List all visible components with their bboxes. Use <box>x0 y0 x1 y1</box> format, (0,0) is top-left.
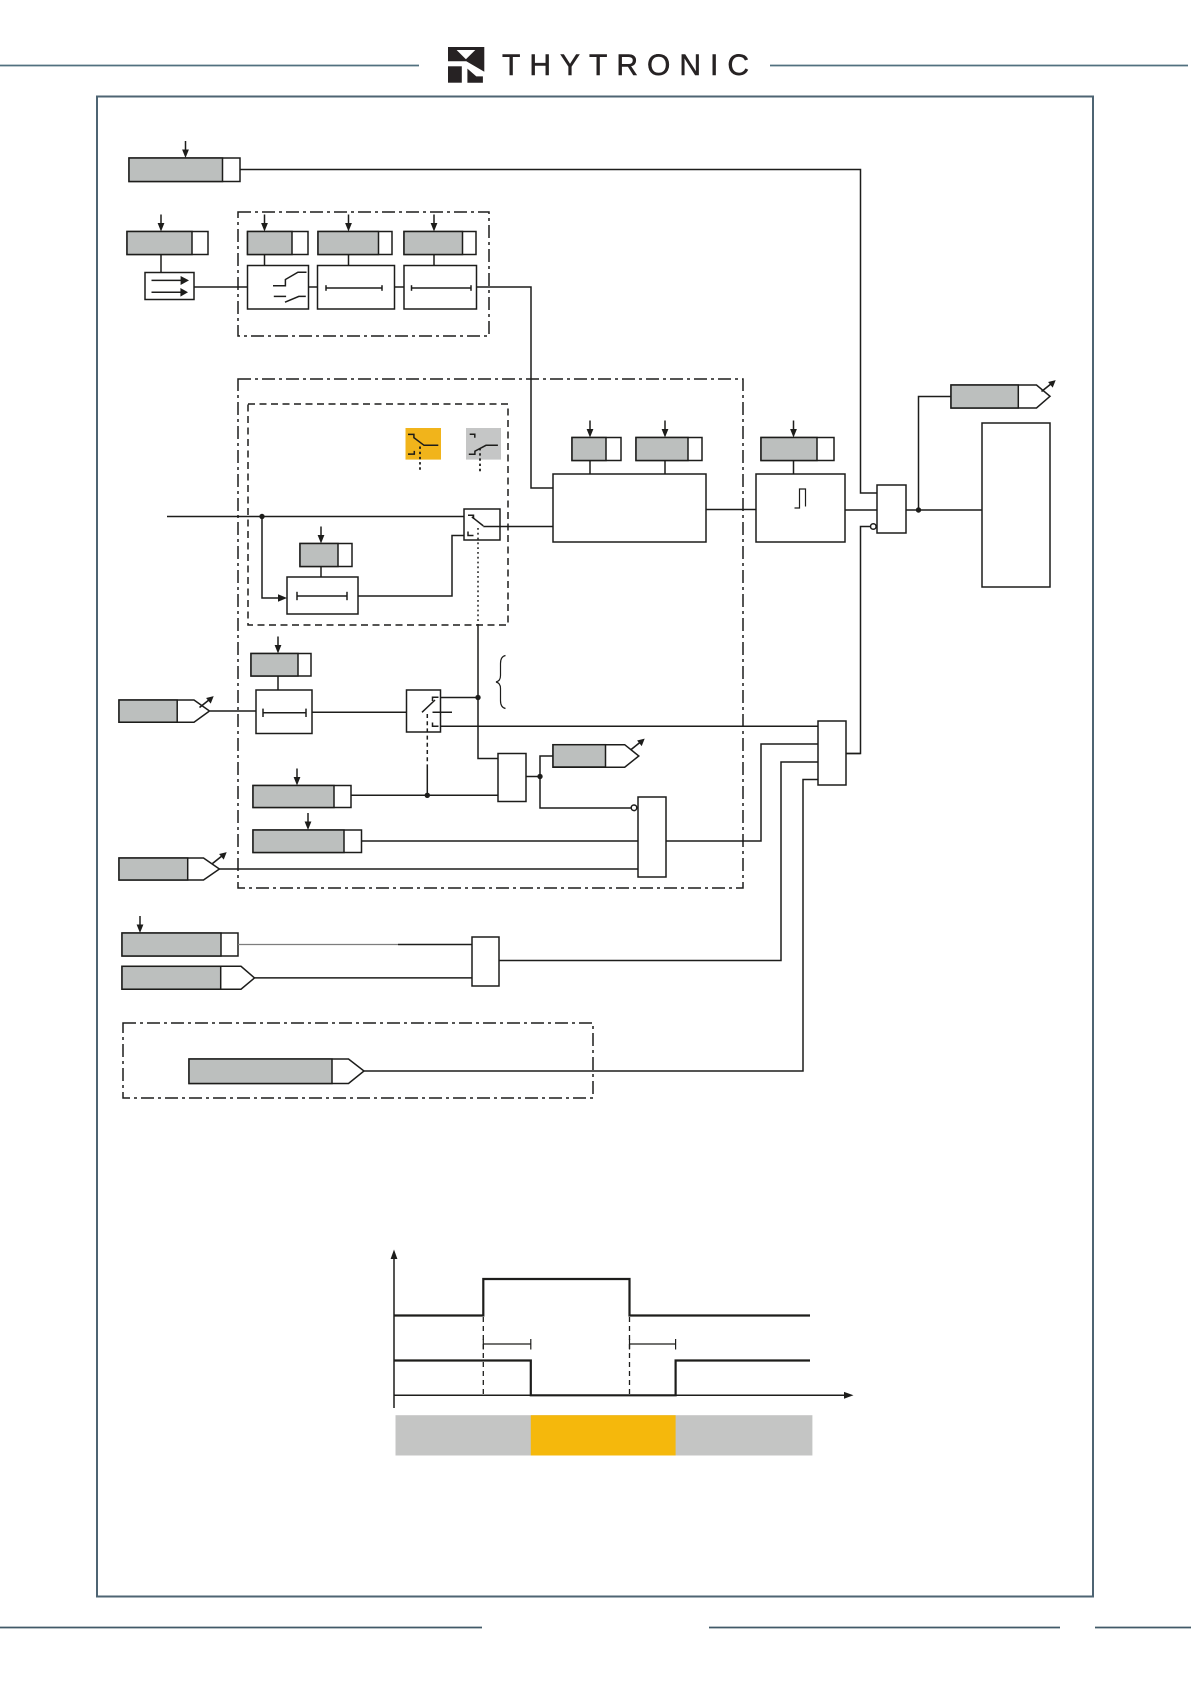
wire SW2 to node J4 <box>441 697 479 699</box>
parameter box P3 <box>318 215 392 266</box>
input flag IN1 <box>119 696 214 722</box>
wire OR output to G1 inverted input <box>846 527 871 754</box>
pulse block PB <box>756 474 845 542</box>
wire SW2 lower contact to OR1 input 1 <box>441 725 819 727</box>
wire A1 output to node J5 <box>526 776 540 778</box>
wire J5 to NOR block N1 inverted input <box>540 777 631 809</box>
wire B1 to B2 <box>309 286 318 288</box>
parameter box P11 <box>253 813 362 853</box>
wire J4 to AND block A1 input 1 <box>478 698 498 759</box>
wire T1 to switch SW1 <box>358 536 464 597</box>
wire T2 to switch SW2 <box>312 711 407 713</box>
inverted input node of N1 <box>631 805 637 811</box>
wire P10 to A1 input 2 <box>351 794 498 796</box>
parameter box P8 <box>761 421 834 475</box>
node J4 <box>475 695 480 700</box>
node J5 <box>537 774 542 779</box>
parameter box P7 <box>636 421 702 475</box>
header rule left <box>0 65 419 67</box>
gate G1 <box>877 485 906 533</box>
main input wire <box>167 516 464 518</box>
wire from P0 to gate input 1 <box>240 170 877 494</box>
dotted control from SW1 <box>477 528 479 625</box>
header rule right <box>770 65 1188 67</box>
wire U1 to B1 <box>194 286 248 288</box>
input flag IN2 <box>119 852 227 880</box>
timing chart y-axis <box>391 1250 398 1409</box>
wire control to node J3 <box>426 768 428 795</box>
parameter box P4 <box>404 215 476 266</box>
wire IN1 to T2 <box>210 710 256 712</box>
block B2 timer <box>318 266 395 310</box>
parameter box P5 <box>300 527 352 578</box>
dashed group box (reset logic) <box>248 404 508 625</box>
delay measure M1 <box>483 1339 531 1350</box>
parameter box P9 <box>251 637 311 691</box>
function block FB <box>982 423 1050 587</box>
block B1 threshold <box>248 266 309 310</box>
wire P11 to N1 input 2 <box>362 840 639 842</box>
wire SW1 control node <box>477 625 479 698</box>
switch SW1 <box>464 509 500 540</box>
output flag K1 <box>951 380 1056 408</box>
wire PB to gate input 2 <box>845 509 877 511</box>
double-arrow block U1 <box>145 273 194 300</box>
footer rule segments <box>0 1627 482 1629</box>
parameter box P6 <box>572 421 621 475</box>
node J1 <box>259 514 264 519</box>
gray mode icon <box>466 428 501 472</box>
dashed marker t1 <box>482 1317 484 1395</box>
input flag IN4 <box>189 1059 364 1084</box>
block T1 timer <box>287 577 358 614</box>
brace <box>496 656 506 709</box>
THYTRONIC logo mark <box>448 47 484 83</box>
parameter box P1 <box>127 215 208 274</box>
delay measure M2 <box>630 1339 676 1350</box>
inverted input node of G1 <box>871 524 877 530</box>
wire IN2 to N1 input 3 <box>219 868 638 870</box>
yellow mode icon <box>406 428 442 472</box>
wire IN3 to A2 input 2 <box>255 977 473 979</box>
parameter box P10 <box>253 769 351 808</box>
timing signal S2 <box>394 1361 810 1396</box>
dash-dot group box (input chain) <box>238 212 489 336</box>
output flag K2 <box>553 739 645 768</box>
timing chart x-axis <box>394 1392 854 1399</box>
switch SW2 <box>407 690 453 732</box>
timing signal S1 <box>394 1279 810 1316</box>
dash-dot group box (blocking) <box>123 1023 593 1098</box>
wire IN4 to OR1 input 4 <box>364 780 818 1072</box>
block B3 timer <box>404 266 477 310</box>
wire J1 to T1 with arrowhead <box>262 517 287 602</box>
wire J2 to output flag K1 <box>919 397 952 511</box>
wire J5 to output flag K2 <box>540 756 553 777</box>
wire OR1 output <box>846 753 861 755</box>
dashed control from SW2 <box>426 714 428 768</box>
wire B3 to comparator input 1 <box>477 287 554 488</box>
block T2 timer <box>256 690 312 734</box>
node J2 <box>916 507 921 512</box>
parameter box P0 top <box>129 141 240 182</box>
state band gray <box>396 1415 813 1455</box>
state band yellow <box>531 1415 676 1455</box>
OR block OR1 <box>818 721 846 785</box>
AND block A1 <box>498 754 526 802</box>
wire P12 to A2 input 1 <box>238 944 398 946</box>
NOR block N1 <box>638 797 666 877</box>
dash-dot group box (main function) <box>238 379 743 888</box>
wire B2 to B3 <box>395 286 405 288</box>
parameter box P2 <box>248 215 309 266</box>
AND block A2 <box>472 937 499 986</box>
wire A2 output to OR1 input 3 <box>499 762 819 961</box>
wire CMP to pulse block <box>706 509 756 511</box>
wire SW1 to comparator input 2 <box>500 526 553 528</box>
comparator block CMP <box>553 474 706 542</box>
page border frame <box>97 97 1093 1597</box>
input flag IN3 <box>122 966 255 989</box>
parameter box P12 <box>122 916 238 956</box>
wire G1 output to function block <box>906 509 982 511</box>
svg-text:THYTRONIC: THYTRONIC <box>502 49 758 82</box>
node J3 <box>425 793 430 798</box>
wire N1 output to OR1 input 2 <box>666 744 818 841</box>
dashed marker t2 <box>629 1317 631 1395</box>
